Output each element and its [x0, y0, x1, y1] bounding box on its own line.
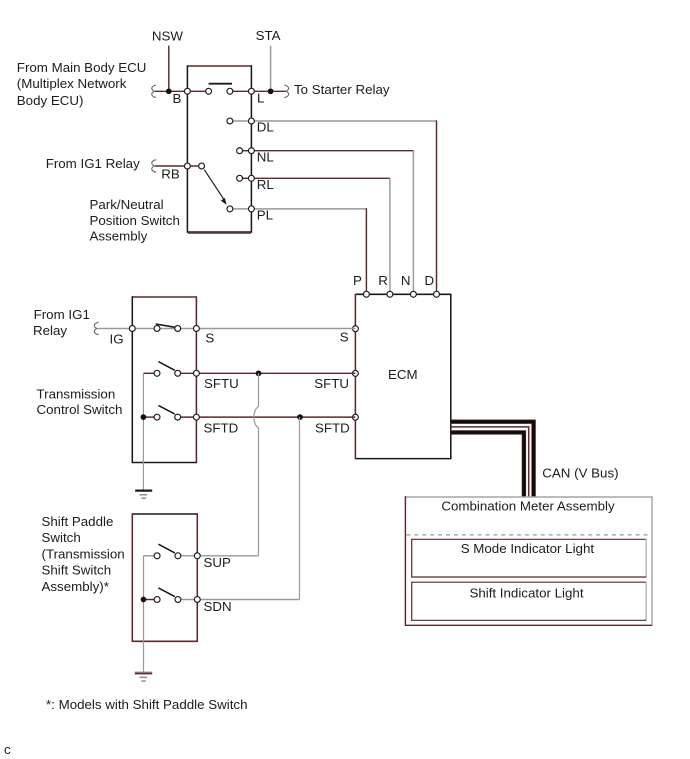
wire SDN row out: [178, 599, 300, 601]
svg-text:Assembly: Assembly: [90, 229, 148, 244]
terminal SFTD circle (ECM): [352, 414, 358, 420]
wire RL row and to R: [240, 178, 390, 295]
node SFTU junction dot: [256, 370, 262, 376]
switch contact bar B-L: [209, 83, 232, 85]
label From IG1 Relay (middle): [33, 307, 90, 338]
S Mode Indicator Light box: [412, 539, 647, 578]
terminal DL circle: [248, 118, 254, 124]
wire DL row and to D: [230, 120, 437, 294]
svg-text:CAN (V Bus): CAN (V Bus): [542, 465, 618, 480]
node SFTD junction dot: [297, 414, 303, 420]
switch SFTD contacts: [154, 405, 181, 420]
terminal S circle (ECM): [352, 326, 358, 332]
svg-text:NSW: NSW: [152, 29, 184, 44]
terminal SFTU circle (switch): [193, 370, 199, 376]
switch pole circle RB: [199, 163, 205, 169]
CAN bus lower wire (maroon edge + black): [451, 432, 524, 497]
svg-text:*: Models with Shift Paddle Sw: *: Models with Shift Paddle Switch: [46, 697, 248, 712]
node ground junction dot SDN: [141, 597, 147, 603]
svg-text:P: P: [353, 273, 362, 288]
svg-text:L: L: [257, 91, 264, 106]
terminal PL circle: [248, 206, 254, 212]
wire IG1 relay to RB: [155, 165, 202, 167]
svg-text:Combination Meter Assembly: Combination Meter Assembly: [441, 499, 615, 514]
svg-text:S Mode Indicator Light: S Mode Indicator Light: [461, 541, 595, 556]
svg-text:Park/Neutral: Park/Neutral: [90, 197, 164, 212]
terminal S circle (switch): [193, 326, 199, 332]
wire SFTU stub inside: [143, 372, 157, 374]
svg-text:B: B: [173, 91, 182, 106]
svg-text:SFTU: SFTU: [314, 376, 349, 391]
switch contact circle 2: [227, 88, 233, 94]
svg-text:ECM: ECM: [388, 367, 418, 382]
svg-text:Shift Paddle: Shift Paddle: [42, 514, 114, 529]
svg-text:IG: IG: [110, 332, 124, 347]
node ground junction dot SFTD: [141, 414, 147, 420]
connector squiggle left of B: [152, 85, 156, 98]
terminal R circle: [387, 291, 393, 297]
Combination Meter Assembly box: [405, 496, 652, 626]
svg-text:Position Switch: Position Switch: [90, 213, 180, 228]
switch SDN contacts: [154, 588, 181, 603]
Park/Neutral Position Switch Assembly box: [187, 65, 251, 233]
svg-text:SFTD: SFTD: [204, 420, 239, 435]
terminal RB circle: [184, 163, 190, 169]
terminal SFTU circle (ECM): [352, 370, 358, 376]
wire SUP stub inside: [144, 555, 158, 557]
wire SDN stub inside: [144, 599, 158, 601]
svg-text:SUP: SUP: [204, 555, 232, 570]
wire STA vertical: [270, 46, 272, 92]
switch SUP contacts: [154, 544, 181, 559]
svg-text:S: S: [340, 330, 349, 345]
svg-text:DL: DL: [257, 120, 274, 135]
terminal P circle: [363, 291, 369, 297]
svg-text:Body ECU): Body ECU): [17, 93, 84, 108]
label Shift Paddle Switch (Transmission Shift Switch Assembly)*: [42, 514, 125, 594]
svg-text:c: c: [4, 742, 11, 757]
label Transmission Control Switch: [37, 386, 123, 417]
svg-text:SFTD: SFTD: [315, 420, 350, 435]
svg-text:To Starter Relay: To Starter Relay: [294, 82, 390, 97]
terminal D circle: [434, 291, 440, 297]
connector squiggle left of RB: [152, 160, 156, 173]
ECM box: [355, 294, 450, 460]
connector squiggle right before To Starter Relay: [284, 85, 288, 98]
svg-text:N: N: [401, 273, 411, 288]
wire NSW vertical: [168, 46, 170, 92]
wire SFTD row to ECM: [178, 416, 356, 418]
terminal L circle: [248, 88, 254, 94]
wire SFTD junction down to SDN: [299, 417, 301, 599]
terminal SDN circle: [194, 597, 200, 603]
svg-text:PL: PL: [257, 208, 273, 223]
ground (shift paddle switch): [135, 672, 152, 681]
terminal SFTD circle (switch): [193, 414, 199, 420]
node STA junction dot: [268, 88, 274, 94]
terminal B circle: [184, 88, 190, 94]
svg-text:SFTU: SFTU: [204, 376, 239, 391]
svg-text:R: R: [378, 273, 388, 288]
svg-text:From Main Body ECU: From Main Body ECU: [17, 60, 147, 75]
wire PL row and to P: [230, 208, 367, 294]
node NSW junction dot: [166, 88, 172, 94]
svg-text:STA: STA: [256, 28, 281, 43]
switch contact circle NL inner: [237, 148, 243, 154]
svg-text:Switch: Switch: [42, 530, 81, 545]
wire IG row / S row to ECM: [98, 328, 356, 330]
terminal RL circle: [248, 175, 254, 181]
svg-text:From IG1 Relay: From IG1 Relay: [46, 156, 140, 171]
svg-text:(Multiplex Network: (Multiplex Network: [17, 76, 127, 91]
Transmission Control Switch box: [132, 296, 196, 463]
switch contact circle RL inner: [237, 175, 243, 181]
CAN bus middle wire maroon: [451, 427, 529, 497]
wire SFTU row to ECM: [178, 372, 356, 374]
wire ground drop (transmission switch): [142, 373, 144, 489]
svg-text:D: D: [425, 273, 435, 288]
switch SFTU contacts: [154, 362, 181, 377]
svg-text:From IG1: From IG1: [34, 307, 90, 322]
connector squiggle left of IG: [94, 322, 98, 335]
Shift Indicator Light box: [412, 582, 647, 621]
svg-text:Transmission: Transmission: [37, 386, 116, 401]
wire circle2 to L to STA to starter relay: [230, 90, 286, 92]
terminal N circle: [410, 291, 416, 297]
label Park/Neutral Position Switch Assembly: [90, 197, 180, 244]
svg-text:S: S: [205, 331, 214, 346]
switch arrow RB to PL: [204, 170, 226, 205]
svg-text:Relay: Relay: [33, 323, 67, 338]
switch contact circle DL inner: [227, 118, 233, 124]
wire ground drop (shift paddle switch): [143, 556, 145, 672]
switch contact circle PL inner: [227, 206, 233, 212]
svg-text:RB: RB: [161, 167, 180, 182]
wire SFTD stub inside: [143, 416, 157, 418]
CAN bus upper wire (maroon edge + black): [451, 422, 534, 497]
terminal SUP circle: [194, 553, 200, 559]
svg-text:Assembly)*: Assembly)*: [42, 579, 109, 594]
svg-text:Control Switch: Control Switch: [37, 402, 123, 417]
terminal NL circle: [248, 148, 254, 154]
label From Main Body ECU (Multiplex Network Body ECU): [17, 60, 147, 108]
Shift Paddle Switch box: [132, 513, 197, 642]
svg-text:NL: NL: [257, 149, 274, 164]
svg-text:(Transmission: (Transmission: [42, 546, 125, 561]
wire SUP row out: [178, 555, 259, 557]
dashed separator: [407, 534, 652, 536]
wire SFTU junction down to SUP with hop over SFTD: [254, 373, 259, 556]
svg-text:Shift Switch: Shift Switch: [42, 563, 112, 578]
switch S contacts: [154, 324, 181, 331]
svg-text:Shift Indicator Light: Shift Indicator Light: [469, 585, 583, 600]
wire from Main Body ECU to B: [155, 90, 209, 92]
terminal IG circle: [129, 326, 135, 332]
wire NL row and to N: [240, 150, 414, 294]
switch contact circle 1: [206, 88, 212, 94]
svg-text:RL: RL: [257, 177, 274, 192]
svg-text:SDN: SDN: [204, 599, 232, 614]
ground (transmission switch): [135, 491, 152, 499]
